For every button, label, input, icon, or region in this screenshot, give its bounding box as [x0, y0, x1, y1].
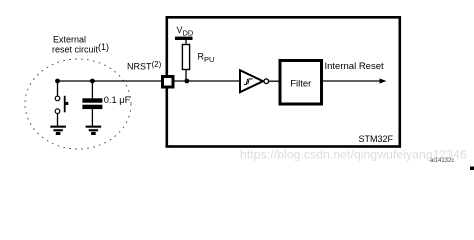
filter block: [280, 61, 322, 105]
svg-text:ai14132c: ai14132c: [430, 158, 454, 164]
schmitt trigger inverter: [240, 70, 269, 92]
wire: pad to schmitt trigger input: [175, 80, 241, 82]
node: junction RPU / NRST net: [184, 79, 189, 84]
wire: external NRST net (switch/cap to pad): [58, 80, 163, 82]
corner mark: [470, 167, 474, 171]
capacitor 0.1 uF: [82, 81, 102, 126]
svg-text:VDD: VDD: [177, 25, 194, 38]
svg-text:STM32F: STM32F: [358, 134, 393, 144]
power VDD symbol: [175, 37, 193, 45]
external reset circuit boundary (dashed ellipse): [25, 59, 131, 149]
svg-text:NRST(2): NRST(2): [127, 60, 162, 72]
wire: internal reset output with arrow: [323, 78, 387, 83]
ground (under capacitor): [86, 126, 102, 135]
svg-text:0.1 μF: 0.1 μF: [104, 95, 131, 105]
svg-text:External: External: [53, 35, 86, 45]
node: junction at capacitor: [90, 79, 95, 84]
label External reset circuit(1): [52, 35, 109, 55]
wire: schmitt output to filter: [269, 80, 280, 82]
node: junction at switch: [55, 79, 60, 84]
ground (under switch): [50, 126, 66, 135]
svg-text:Internal Reset: Internal Reset: [325, 61, 385, 72]
svg-text:Filter: Filter: [290, 79, 311, 90]
push-button switch: [55, 81, 68, 126]
chip U1 STM32F outline: [167, 17, 400, 146]
resistor RPU: [182, 45, 189, 82]
pin pad NRST: [163, 77, 174, 88]
svg-text:RPU: RPU: [198, 52, 215, 65]
svg-text:reset circuit(1): reset circuit(1): [52, 42, 109, 55]
